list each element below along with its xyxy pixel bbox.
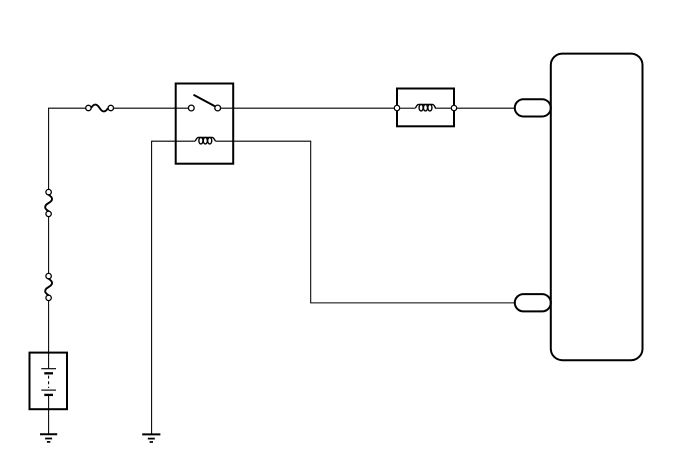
wire from fuse F1 to relay switch contact	[114, 107, 189, 109]
relay K1 switch contact left	[188, 105, 194, 111]
battery B1 dashed middle	[48, 376, 50, 388]
battery B1 cell1 short plate	[44, 372, 53, 374]
component U1 coil	[416, 104, 436, 111]
ECU module box	[551, 54, 643, 361]
wire from fuse F3 to battery	[48, 301, 50, 353]
wire from relay coil right side to connector pill P2	[215, 141, 515, 303]
battery B1 top lead	[48, 353, 50, 369]
wire between fuse F2 and fuse F3	[48, 217, 50, 274]
battery B1 cell1 long plate	[41, 368, 56, 370]
wire from relay coil left side down to ground	[152, 141, 196, 434]
wire inside U1 left	[400, 107, 416, 109]
wire inside U1 right	[435, 107, 452, 109]
relay K1 switch contact right	[215, 105, 221, 111]
connector pill P1	[515, 99, 551, 116]
fuse F2 (vertical, upper)	[45, 189, 52, 216]
ground (battery)	[40, 434, 57, 442]
component U1 terminal right	[451, 105, 456, 110]
wire top-left horizontal to fuse F1	[48, 107, 86, 109]
relay K1 coil	[195, 137, 215, 144]
battery B1 cell2 long plate	[41, 389, 56, 391]
battery B1 cell2 short plate	[44, 394, 53, 396]
wire from component U1 right terminal to connector pill P1	[457, 107, 515, 109]
connector pill P2	[515, 294, 551, 311]
component U1 terminal left	[394, 105, 399, 110]
fuse F3 (vertical, lower)	[45, 273, 52, 300]
wire from relay switch to component U1 left terminal	[221, 107, 395, 109]
component U1 box	[397, 89, 454, 127]
relay K1 switch blade	[194, 95, 215, 106]
battery B1 box	[30, 353, 68, 410]
battery B1 bottom lead / wire to ground	[48, 395, 50, 434]
ground (relay coil)	[142, 434, 160, 442]
wire left vertical from top corner to fuse F2	[48, 108, 50, 189]
relay K1 box	[176, 84, 234, 164]
fuse F1 (horizontal, top wire)	[86, 105, 114, 112]
